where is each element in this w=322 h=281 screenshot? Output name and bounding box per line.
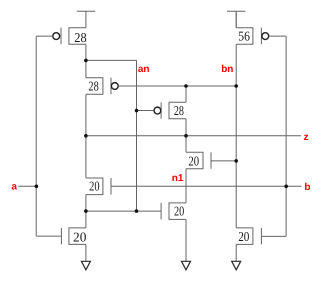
- ground symbol 2: [182, 261, 191, 270]
- pmos P2 gate bubble: [111, 83, 118, 90]
- junction node an row left: [84, 209, 88, 213]
- ground symbol 3: [232, 261, 241, 270]
- junction P3 gate on an: [135, 109, 139, 113]
- nmos N6 20 (gate=b, passes an to z): [86, 178, 103, 195]
- wire net b vertical rail: [285, 36, 287, 236]
- wire z to N6 drain: [85, 136, 87, 178]
- wire z to N5 drain: [185, 136, 187, 153]
- nmos N5 20 (gate=bn, z pulldown upper): [186, 152, 203, 169]
- pmos P4 gate bubble: [262, 33, 269, 40]
- svg-text:a: a: [11, 181, 17, 192]
- junction z middle: [184, 134, 188, 138]
- wire P1 drain to node an: [85, 44, 87, 60]
- pmos P1 gate line: [60, 28, 62, 45]
- svg-text:28: 28: [74, 30, 87, 45]
- pmos P3 gate line: [160, 102, 162, 119]
- wire net bn vertical down to N8: [235, 86, 237, 228]
- nmos N7 20 (gate=an, z pulldown lower): [169, 203, 186, 220]
- svg-text:28: 28: [174, 103, 184, 118]
- svg-text:28: 28: [88, 78, 99, 93]
- wire junction to N9 drain: [85, 211, 87, 228]
- wire node an to P2 drain: [85, 60, 87, 77]
- wire net b horizontal: [111, 185, 302, 187]
- junction node b: [284, 185, 288, 189]
- pmos P4 gate line: [260, 28, 262, 45]
- nmos N6 gate line: [110, 178, 112, 195]
- wire P3 source down to z: [185, 119, 187, 136]
- svg-text:20: 20: [238, 229, 249, 244]
- pmos P2 28 (gate=bn, passes an to z): [86, 78, 103, 95]
- svg-text:b: b: [304, 182, 310, 193]
- wire P2 source down to z: [85, 94, 87, 136]
- pmos P2 gate line: [110, 78, 112, 95]
- svg-text:an: an: [138, 64, 150, 75]
- wire VDD to P4: [235, 11, 237, 27]
- nmos N8 gate line: [260, 228, 262, 245]
- svg-text:n1: n1: [172, 173, 184, 184]
- wire P4 drain down to bn: [235, 44, 237, 86]
- wire bn to P3 drain: [185, 86, 187, 102]
- junction node an at P1/P2: [84, 59, 88, 63]
- wire N8 source to ground: [235, 244, 237, 261]
- junction N5 gate on bn: [234, 159, 238, 163]
- svg-text:56: 56: [238, 28, 250, 43]
- ground symbol 1: [81, 261, 90, 270]
- svg-text:20: 20: [73, 230, 87, 245]
- wire P3 gate lead: [137, 110, 154, 112]
- wire net z horizontal: [86, 135, 301, 137]
- wire P1 gate lead: [36, 35, 53, 37]
- svg-text:20: 20: [174, 203, 184, 218]
- VDD supply symbol left: [77, 11, 95, 27]
- nmos N7 gate line: [160, 203, 162, 220]
- svg-text:bn: bn: [221, 64, 233, 75]
- wire N9 gate lead: [36, 235, 61, 237]
- svg-text:20: 20: [89, 178, 100, 193]
- wire N8 gate lead: [261, 235, 286, 237]
- pmos P4 56 (gate=b, bn inverter pull-up): [236, 28, 253, 45]
- wire net an horizontal: [86, 59, 137, 61]
- svg-text:z: z: [304, 132, 309, 143]
- junction node z left: [84, 134, 88, 138]
- wire P4 gate lead: [269, 35, 286, 37]
- wire N6 source down to n-an row: [85, 195, 87, 212]
- wire net n1 horizontal: [86, 210, 161, 212]
- nmos N8 20 (gate=b, bn inverter pull-down): [236, 228, 253, 245]
- wire N9 source to ground: [85, 244, 87, 261]
- wire net a horizontal from label a to junction: [18, 185, 36, 187]
- wire N7 source to ground: [185, 219, 187, 261]
- junction bn at P4: [234, 84, 238, 88]
- nmos N5 gate line: [210, 152, 212, 169]
- pmos P3 gate bubble: [154, 107, 161, 114]
- junction bn to P3: [184, 84, 188, 88]
- wire net a vertical rail: [35, 36, 37, 236]
- nmos N9 20 (gate=a, an inverter pull-down): [69, 228, 86, 245]
- VDD supply symbol right: [227, 11, 245, 27]
- wire N5 source to N7 drain (node n1): [185, 169, 187, 203]
- junction an vertical to an row: [135, 209, 139, 213]
- pmos P1 gate bubble: [53, 33, 60, 40]
- pmos P3 28 (gate=an, passes bn to z): [169, 102, 186, 119]
- junction node a: [35, 185, 39, 189]
- nmos N9 gate line: [60, 228, 62, 245]
- wire net bn horizontal: [119, 85, 237, 87]
- wire N5 gate lead: [211, 160, 236, 162]
- pmos P1 28 (gate=a, an inverter pull-up): [69, 28, 86, 45]
- svg-text:20: 20: [188, 153, 199, 168]
- wire net an vertical: [136, 60, 138, 211]
